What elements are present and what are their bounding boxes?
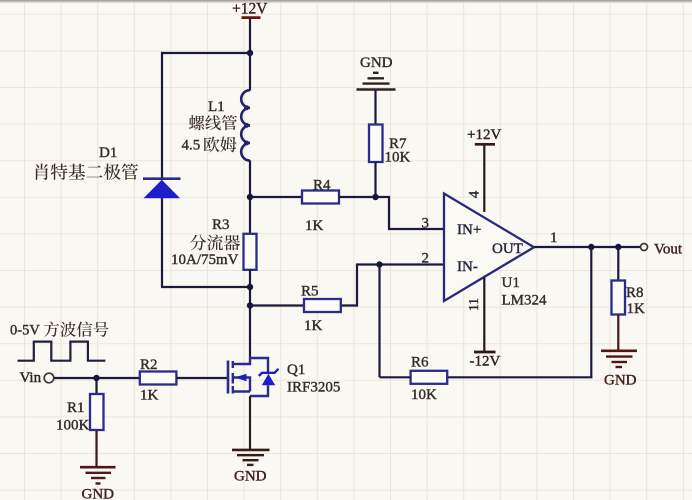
svg-text:U1: U1 bbox=[502, 275, 520, 291]
svg-text:R1: R1 bbox=[67, 400, 85, 416]
resistor R2 bbox=[140, 357, 177, 404]
svg-text:1: 1 bbox=[550, 230, 558, 246]
ground GND (under R1) bbox=[80, 467, 116, 500]
svg-text:D1: D1 bbox=[99, 145, 117, 161]
svg-text:R4: R4 bbox=[313, 178, 331, 194]
terminal Vin bbox=[20, 370, 54, 386]
wire R3 to Q1 drain bbox=[249, 270, 251, 359]
wire R1 to GND bbox=[95, 430, 97, 467]
svg-text:R5: R5 bbox=[301, 284, 319, 300]
ground GND (under R8) bbox=[601, 351, 637, 389]
resistor R7 bbox=[369, 125, 411, 166]
svg-text:1K: 1K bbox=[304, 318, 323, 334]
svg-text:R3: R3 bbox=[212, 217, 230, 233]
node: D1 return bbox=[247, 284, 253, 290]
diode D1 (schottky) bbox=[36, 145, 181, 198]
svg-text:3: 3 bbox=[422, 216, 430, 232]
svg-text:IN+: IN+ bbox=[457, 222, 481, 238]
wire GND to R7 bbox=[374, 91, 376, 125]
wire R7 to junction bbox=[374, 162, 376, 197]
svg-text:10K: 10K bbox=[411, 387, 437, 403]
ground GND (top, above R7) bbox=[357, 55, 396, 90]
wire OUT bbox=[534, 246, 641, 248]
wire branch to D1 bbox=[161, 52, 250, 54]
square wave symbol bbox=[18, 342, 106, 361]
svg-text:2: 2 bbox=[422, 251, 430, 267]
svg-text:OUT: OUT bbox=[492, 241, 523, 257]
svg-text:GND: GND bbox=[234, 469, 267, 485]
svg-text:Vout: Vout bbox=[654, 242, 683, 258]
wire Q1 source to GND bbox=[249, 396, 251, 450]
svg-text:+12V: +12V bbox=[467, 127, 501, 143]
node: feedback tap bbox=[588, 244, 594, 250]
svg-text:1K: 1K bbox=[627, 301, 646, 317]
svg-text:11: 11 bbox=[466, 298, 481, 311]
svg-text:GND: GND bbox=[360, 55, 393, 71]
svg-text:10K: 10K bbox=[385, 150, 411, 166]
wire D1 bottom leg bbox=[161, 198, 163, 288]
svg-text:R2: R2 bbox=[140, 357, 158, 373]
svg-text:L1: L1 bbox=[208, 99, 225, 115]
svg-text:GND: GND bbox=[604, 373, 637, 389]
power -12V op-amp pin11 bbox=[470, 278, 501, 370]
resistor R6 bbox=[411, 355, 448, 404]
transistor Q1 IRF3205 bbox=[228, 358, 340, 396]
svg-text:Vin: Vin bbox=[20, 370, 42, 386]
ground GND (under Q1) bbox=[232, 450, 270, 485]
wire R4 left bbox=[250, 196, 302, 198]
svg-text:GND: GND bbox=[82, 487, 115, 500]
wire D1 to R3 node bbox=[161, 286, 250, 288]
node: +12V rail junction bbox=[247, 50, 253, 56]
resistor R1 bbox=[56, 394, 104, 434]
wire L1 to R3 bbox=[249, 160, 251, 234]
wire R1 top bbox=[95, 378, 97, 394]
svg-text:1K: 1K bbox=[305, 218, 324, 234]
svg-text:Q1: Q1 bbox=[287, 362, 305, 378]
svg-text:1K: 1K bbox=[140, 388, 159, 404]
node: feedback junction pin2 bbox=[376, 261, 382, 267]
svg-text:IRF3205: IRF3205 bbox=[287, 380, 340, 396]
wire +12V to node bbox=[249, 19, 251, 53]
wire R8 to GND bbox=[617, 315, 619, 351]
power +12V op-amp pin4 bbox=[467, 127, 501, 212]
op-amp U1 LM324 bbox=[422, 190, 558, 311]
node: R7/R4 junction bbox=[372, 194, 378, 200]
svg-text:LM324: LM324 bbox=[502, 293, 548, 309]
wire R5 left bbox=[250, 304, 304, 306]
wire D1 top leg bbox=[161, 52, 163, 179]
wire R6 left to feedback junction bbox=[380, 376, 411, 378]
svg-text:+12V: +12V bbox=[232, 1, 268, 18]
svg-text:0-5V: 0-5V bbox=[10, 323, 40, 339]
svg-text:4: 4 bbox=[467, 190, 483, 198]
svg-text:4.5: 4.5 bbox=[182, 138, 201, 154]
wire R2 to Q1 gate bbox=[176, 377, 228, 379]
wire Vin to R2 bbox=[54, 377, 140, 379]
svg-text:100K: 100K bbox=[56, 418, 90, 434]
resistor R4 bbox=[302, 178, 339, 235]
resistor R8 bbox=[612, 281, 646, 318]
wire to R8 bbox=[617, 247, 619, 281]
svg-text:10A/75mV: 10A/75mV bbox=[171, 252, 239, 268]
node: R1 branch bbox=[93, 375, 99, 381]
node: R8 tap bbox=[615, 244, 621, 250]
wire R5 to pin2 bbox=[341, 265, 444, 306]
node: R5 branch bbox=[247, 302, 253, 308]
svg-text:IN-: IN- bbox=[457, 259, 478, 275]
wire R4 to pin3 bbox=[339, 197, 444, 229]
wire feedback down bbox=[378, 265, 380, 378]
wire feedback right leg bbox=[448, 247, 592, 377]
svg-text:R8: R8 bbox=[626, 285, 644, 301]
node: R4 branch bbox=[247, 194, 253, 200]
power +12V top bbox=[232, 1, 268, 18]
resistor R3 shunt bbox=[171, 217, 257, 270]
svg-text:-12V: -12V bbox=[470, 354, 501, 370]
terminal Vout bbox=[641, 242, 683, 258]
inductor L1 bbox=[182, 53, 251, 161]
svg-text:R6: R6 bbox=[411, 355, 429, 371]
resistor R5 bbox=[301, 284, 341, 335]
